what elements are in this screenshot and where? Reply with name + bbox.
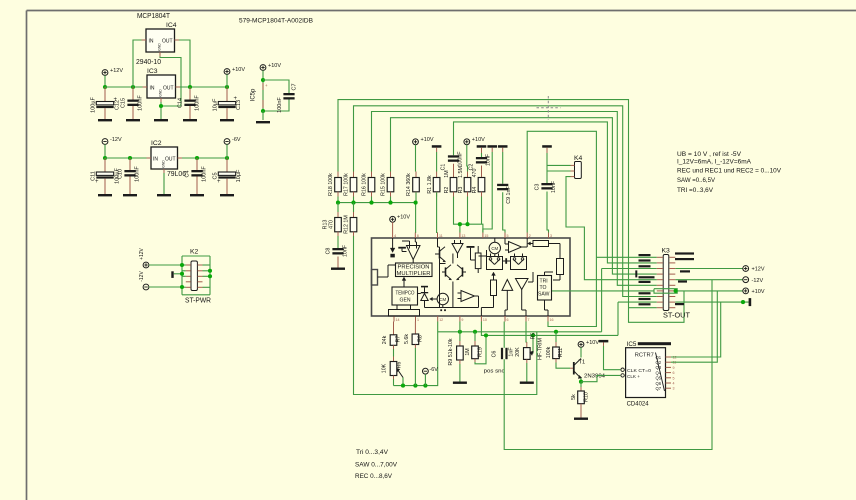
resistor R2 1M <box>453 164 455 178</box>
wire IC3 OUT rail <box>180 86 227 88</box>
svg-text:K3: K3 <box>662 248 671 255</box>
trimmer R5 20K HF-TRIM <box>525 322 528 343</box>
svg-text:C5: C5 <box>213 172 219 179</box>
regulator IC3 2940-10 <box>147 75 176 98</box>
svg-text:13: 13 <box>461 234 465 238</box>
wire net loop R16 to K3 <box>372 112 657 286</box>
svg-text:470: 470 <box>329 220 335 229</box>
K3 left vertical bar symbol <box>635 270 637 277</box>
resistor R3 1.5M <box>467 172 469 178</box>
ground C15 <box>126 119 140 121</box>
svg-text:2N3904: 2N3904 <box>584 374 606 380</box>
wire C6 bottom long loop to K3 gnd <box>504 280 712 450</box>
svg-text:R7: R7 <box>396 336 402 343</box>
svg-text:C6: C6 <box>492 351 498 358</box>
svg-text:CM: CM <box>439 297 446 302</box>
ground C12 <box>98 119 112 121</box>
supply +12V right <box>743 266 749 272</box>
op-amp A3 lower <box>461 291 475 302</box>
svg-text:11: 11 <box>439 234 443 238</box>
wire bar to R1 <box>436 148 438 152</box>
supply +10V top <box>224 69 230 75</box>
svg-text:TRI: TRI <box>540 279 548 285</box>
wire R12 long loop to bus1 <box>354 236 537 395</box>
svg-text:2: 2 <box>529 234 531 238</box>
resistor R16 100k <box>371 172 373 178</box>
wire bus2 pin10 net <box>481 322 618 336</box>
wire IC3 GND down to ground <box>160 102 162 119</box>
wire C3 net to K4 <box>546 148 548 153</box>
svg-text:R15 100k: R15 100k <box>381 173 387 196</box>
node junction C5 <box>225 156 229 160</box>
ground C8 <box>331 268 345 270</box>
svg-text:CD4024: CD4024 <box>627 401 649 408</box>
svg-text:IC5: IC5 <box>627 341 637 348</box>
TEMPCO legs <box>396 305 398 310</box>
resistor R8 5.6k <box>414 322 416 335</box>
wire Q1 to K3 <box>671 302 721 357</box>
svg-text:UB = 10 V , ref ist -5V: UB = 10 V , ref ist -5V <box>677 151 741 158</box>
internal h links <box>479 255 487 257</box>
resistor R7 24k <box>393 322 395 335</box>
node T1 emitter junction <box>579 380 583 384</box>
svg-text:+10V: +10V <box>397 215 410 221</box>
supply bar mid <box>487 145 497 148</box>
current source CM1 <box>437 293 448 304</box>
svg-text:PRECISION: PRECISION <box>398 265 430 271</box>
svg-text:+10V: +10V <box>586 340 599 346</box>
IC5 clock pin bubbles <box>621 368 624 371</box>
svg-text:1.5M: 1.5M <box>458 166 464 178</box>
svg-text:10: 10 <box>483 318 487 322</box>
capacitor C10 100nF <box>129 158 131 170</box>
svg-text:R2: R2 <box>444 187 450 194</box>
node junction C13/+10V <box>225 85 229 89</box>
node bus12 junction at C12 <box>103 85 107 89</box>
svg-text:TEMPCO: TEMPCO <box>396 290 415 296</box>
wire K4 pin3 long net to -12V row <box>566 177 657 280</box>
supply bar above C2 <box>477 145 487 148</box>
counter IC5 CD4024 body <box>626 348 666 398</box>
supply +10V above R14 <box>413 139 419 145</box>
flip-flop link bars <box>503 260 511 262</box>
svg-text:C8: C8 <box>326 248 332 255</box>
node -12V junction C11 <box>103 156 107 160</box>
wire +12V rail to IC3 IN <box>105 86 143 88</box>
wire bar3 to C9 <box>502 148 504 152</box>
supply -12V for K2 <box>143 284 149 290</box>
K2 pin stubs <box>186 264 191 266</box>
regulator IC4 MCP1804T <box>146 29 175 52</box>
ground R10 <box>574 418 588 420</box>
capacitor C7 100nF <box>283 93 294 95</box>
wire bar2 down to IC pin <box>491 148 493 152</box>
svg-text:R10: R10 <box>584 392 590 402</box>
ground C13 <box>220 119 234 121</box>
node IC5p top junction <box>261 78 265 82</box>
wire IC4 IN drop <box>133 40 142 87</box>
svg-text:+10V: +10V <box>752 289 765 295</box>
capacitor C15 100nF <box>132 87 134 100</box>
ground bar right <box>749 298 752 306</box>
svg-text:3: 3 <box>673 387 675 391</box>
K3 pin stubs <box>657 256 663 258</box>
svg-text:TRI =0..3,6V: TRI =0..3,6V <box>677 187 713 194</box>
svg-text:7: 7 <box>528 318 530 322</box>
svg-text:+12V: +12V <box>139 247 145 259</box>
svg-text:9: 9 <box>673 366 675 370</box>
svg-text:+10V: +10V <box>472 137 485 143</box>
dashed sheet marker <box>537 107 561 109</box>
ground C5 <box>220 194 234 196</box>
svg-text:6: 6 <box>673 371 675 375</box>
svg-text:6: 6 <box>507 318 509 322</box>
svg-text:+12V: +12V <box>110 68 123 74</box>
svg-text:10µF: 10µF <box>213 98 219 111</box>
svg-text:5.6k: 5.6k <box>404 334 410 344</box>
K3 left side net bars <box>639 254 651 256</box>
resistor R19 1M <box>474 332 476 341</box>
resistor R1 1.8k <box>436 172 438 178</box>
svg-text:IN: IN <box>153 157 158 163</box>
wire +10V row loop <box>654 289 677 294</box>
svg-text:1M: 1M <box>465 348 471 355</box>
supply +12V top-left <box>102 70 108 76</box>
capacitor C4 100nF <box>196 158 198 170</box>
resistor R12 1M <box>353 203 355 212</box>
svg-text:C13: C13 <box>236 100 242 110</box>
node bus224 junctions <box>458 222 462 226</box>
svg-text:4: 4 <box>673 382 675 386</box>
svg-text:K2: K2 <box>190 249 199 256</box>
wire +10V to R3 <box>466 145 469 172</box>
node junction C4 <box>195 156 199 160</box>
block TEMPCO GEN <box>392 287 418 305</box>
svg-text:GEN: GEN <box>400 297 411 303</box>
svg-text:12: 12 <box>439 318 443 322</box>
supply -12V right <box>743 277 749 283</box>
svg-text:MCP1804T: MCP1804T <box>137 11 171 20</box>
wire bus1 R12 net <box>438 331 602 333</box>
svg-text:5: 5 <box>673 376 675 380</box>
svg-text:REC und REC1 und REC2 = 0...10: REC und REC1 und REC2 = 0...10V <box>677 168 781 175</box>
svg-text:R5: R5 <box>531 333 537 340</box>
node IC3 gnd junction <box>159 104 163 108</box>
wire gnd bar to K2 <box>174 273 182 275</box>
node gnd row junction <box>741 300 745 304</box>
wire saw output from IC to loop <box>552 290 654 292</box>
ground R9 <box>453 382 467 384</box>
svg-text:24k: 24k <box>382 335 388 344</box>
ground IC5p <box>256 121 270 123</box>
supply -6V <box>224 139 230 145</box>
trimmer R6 10K <box>390 362 397 376</box>
svg-text:RCTR7: RCTR7 <box>635 353 654 359</box>
svg-text:100µF: 100µF <box>91 97 97 113</box>
connector K4 body <box>575 162 582 179</box>
svg-text:+10V: +10V <box>232 67 245 73</box>
supply -12V <box>102 139 108 145</box>
wire IC5p to C7 <box>263 80 289 93</box>
wire -12V drop <box>104 144 106 158</box>
flip-flop pair right <box>511 257 527 270</box>
svg-text:1M: 1M <box>444 170 450 177</box>
op-amp A5 buffer up <box>502 280 513 291</box>
svg-text:579-MCP1804T-A002IDB: 579-MCP1804T-A002IDB <box>239 18 313 25</box>
svg-text:CM: CM <box>491 246 498 251</box>
capacitor C8 10nF <box>337 236 339 248</box>
wire net loop R18 to ST-OUT loop <box>338 100 684 323</box>
svg-text:-12V: -12V <box>139 271 145 282</box>
node bus386 junctions <box>401 384 405 388</box>
wire R6 bottom bus <box>393 376 395 380</box>
resistor R10 5k <box>580 387 582 391</box>
svg-text:100k: 100k <box>546 346 552 358</box>
svg-text:-6V: -6V <box>232 137 241 143</box>
wire gnd row right <box>675 301 749 303</box>
wire net loop R15 to K3 <box>391 118 657 274</box>
svg-text:HF-TRIM: HF-TRIM <box>538 338 544 360</box>
svg-text:100nF: 100nF <box>135 166 141 182</box>
trimmer R6 wiper arrow <box>398 370 404 378</box>
block TRI TO SAW <box>538 276 552 301</box>
wire -12V rail to IC2 <box>105 157 147 159</box>
svg-text:C4: C4 <box>185 170 191 177</box>
connector K2 body <box>191 261 197 291</box>
flip-flop pair left <box>487 257 503 270</box>
arrow tempco to multiplier <box>403 280 405 288</box>
wire emitter to CLK <box>581 375 620 381</box>
node junction C15 <box>131 85 135 89</box>
svg-text:10nF: 10nF <box>343 244 349 257</box>
node IC5p bottom junction <box>261 109 265 113</box>
svg-text:+10V: +10V <box>421 137 434 143</box>
ground C4 <box>190 194 204 196</box>
IC top pin stubs <box>392 233 394 239</box>
svg-text:SAW: SAW <box>538 292 550 298</box>
op-amp A6 inverter down <box>516 279 529 290</box>
wire R11 to T1 base <box>555 359 557 363</box>
wire R1 bottom to IC pin 11 <box>436 192 439 232</box>
wire C9 to IC pin <box>503 192 505 232</box>
wire IC5p net <box>262 70 264 111</box>
wire +12V to bus <box>104 75 106 87</box>
capacitor C5 10uF <box>226 158 228 172</box>
supply +10V above IC pin18 <box>390 216 396 222</box>
block PRECISION MULTIPLIER <box>396 263 433 277</box>
wire reset to IC5 <box>603 342 605 346</box>
svg-text:R18 100k: R18 100k <box>328 173 334 196</box>
svg-text:5k: 5k <box>571 394 577 400</box>
supply +12V for K2 <box>143 262 149 268</box>
node +10V row junction <box>674 289 678 293</box>
K3 right side net bars <box>675 252 694 254</box>
resistor R9 51k-10k <box>459 341 461 346</box>
ground IC2 <box>157 194 171 196</box>
svg-text:R19: R19 <box>478 347 484 357</box>
internal resistor Ri1 <box>475 253 481 269</box>
node bus1 junctions <box>458 330 462 334</box>
svg-text:R3: R3 <box>458 187 464 194</box>
capacitor C3 10nF <box>541 183 552 185</box>
svg-text:100nF: 100nF <box>138 95 144 111</box>
K4 pin stubs <box>571 164 575 166</box>
svg-text:ST-OUT: ST-OUT <box>663 313 691 320</box>
svg-text:C10: C10 <box>118 169 124 179</box>
svg-text:16: 16 <box>550 318 554 322</box>
IC5 power pins stubs <box>262 83 264 90</box>
wire net loop C1 to K3 <box>454 122 657 263</box>
capacitor C9 1nF <box>497 184 508 186</box>
svg-text:-6V: -6V <box>429 367 438 373</box>
svg-text:CLK CT=0: CLK CT=0 <box>627 368 651 373</box>
wire R5 bottom to ground <box>526 359 528 363</box>
svg-text:MULTIPLIER: MULTIPLIER <box>397 271 431 277</box>
wire R19 bottom loop to bus2 <box>474 359 476 362</box>
regulator IC2 79L06 <box>151 147 178 169</box>
svg-text:K4: K4 <box>574 155 583 162</box>
IC bottom pin stubs <box>393 316 395 322</box>
svg-text:470: 470 <box>472 169 478 178</box>
node junction C10 <box>128 156 132 160</box>
internal resistor Rh with arrow <box>533 241 549 247</box>
svg-text:R12 1M: R12 1M <box>344 215 350 234</box>
capacitor C13 10uF <box>226 87 228 102</box>
op-amp A2 <box>452 244 463 254</box>
svg-text:15: 15 <box>484 234 488 238</box>
svg-text:100nF: 100nF <box>277 97 283 113</box>
resistor R14 360k <box>415 172 417 178</box>
supply -6V mid <box>423 368 429 374</box>
capacitor C11 100uF <box>104 158 106 172</box>
supply bar above C3 <box>542 145 552 148</box>
trimmer R5 wiper arrow <box>530 351 534 356</box>
K2 junction dots <box>180 263 184 267</box>
supply +10V for T1 <box>578 342 584 348</box>
wire IC5p to ground <box>262 111 264 120</box>
internal bottom rail <box>425 307 479 309</box>
supply +10V for IC5p <box>260 65 266 71</box>
supply bar above R1 <box>432 145 442 148</box>
svg-text:R9 51k-10k: R9 51k-10k <box>448 338 454 365</box>
svg-text:C14: C14 <box>178 98 184 108</box>
svg-text:OUT: OUT <box>165 157 176 163</box>
svg-text:SAW =0..6,5V: SAW =0..6,5V <box>677 177 715 184</box>
wire +12V to K2 <box>149 264 182 266</box>
supply bar CLK reset <box>599 340 609 343</box>
wire R2/R3/R4 bottom bus to IC pin 13 <box>454 197 483 233</box>
svg-text:-12V: -12V <box>752 278 764 284</box>
wire row to K3 pin 9L <box>618 301 657 303</box>
svg-text:R17 100k: R17 100k <box>344 173 350 196</box>
transistor Q2 internal <box>445 267 447 276</box>
svg-text:REC 0...8,6V: REC 0...8,6V <box>355 473 392 480</box>
node ladder bus junctions <box>336 201 340 205</box>
svg-text:GND: GND <box>162 160 166 168</box>
svg-text:Tri 0...3,4V: Tri 0...3,4V <box>356 449 388 456</box>
svg-text:R13: R13 <box>323 220 329 230</box>
wire IC2 GND <box>163 173 165 194</box>
transistor Q3 internal <box>462 267 464 276</box>
svg-text:C11: C11 <box>91 171 97 181</box>
ground C14 <box>183 119 197 121</box>
svg-text:I_12V=6mA, I_-12V=6mA: I_12V=6mA, I_-12V=6mA <box>677 159 751 166</box>
svg-text:R4: R4 <box>472 187 478 194</box>
diode internal <box>421 286 428 288</box>
svg-text:3: 3 <box>550 234 552 238</box>
IC5 output slash <box>656 353 665 392</box>
capacitor C1 100nF above R2 <box>448 155 459 157</box>
svg-text:R11: R11 <box>558 348 564 357</box>
svg-text:10K: 10K <box>382 363 388 373</box>
resistor R15 100k <box>390 172 392 178</box>
wire +10V drop <box>226 74 228 87</box>
capacitor C12 100uF <box>104 87 106 102</box>
svg-text:GND: GND <box>159 89 163 97</box>
wire +12V row to supply <box>675 268 743 270</box>
svg-text:10µF: 10µF <box>236 169 242 182</box>
supply bar above C9 <box>498 145 508 148</box>
svg-text:TO: TO <box>540 285 547 291</box>
wire +12V net vertical from bus1 <box>601 269 603 332</box>
wire pin13 drop <box>459 224 461 232</box>
wire Q2 to K3 <box>671 291 717 362</box>
svg-text:14: 14 <box>396 318 400 322</box>
connector K3 body <box>663 255 669 311</box>
svg-text:C3: C3 <box>535 184 541 191</box>
svg-text:10nF: 10nF <box>486 153 492 166</box>
capacitor C2 10nF <box>481 148 483 153</box>
IC left notch <box>372 270 378 286</box>
svg-text:IN: IN <box>150 86 155 92</box>
svg-text:Q7: Q7 <box>656 386 662 391</box>
resistor R11 100k <box>555 332 557 342</box>
IC soft-sync arrow input <box>392 238 394 249</box>
wire row to K3 pin 3L <box>602 268 657 270</box>
svg-text:IN: IN <box>149 39 154 45</box>
svg-text:+12V: +12V <box>752 267 765 273</box>
K2 green loop wiring <box>182 255 210 257</box>
svg-text:CLK +: CLK + <box>627 374 640 379</box>
capacitor C6 1nF rotated <box>503 322 505 348</box>
ground C10 <box>123 194 137 196</box>
arrow up internal <box>493 275 495 281</box>
wire +10V to T1 collector <box>580 347 582 357</box>
svg-text:ST-PWR: ST-PWR <box>185 298 211 305</box>
svg-text:R6: R6 <box>397 362 403 369</box>
svg-text:1nF: 1nF <box>509 347 515 357</box>
wire IC4 OUT to +10 rail <box>179 40 190 87</box>
ground C11 <box>98 194 112 196</box>
svg-text:5: 5 <box>507 234 509 238</box>
op-amp internal IC body <box>372 238 571 316</box>
wire row to K3 pin 1L <box>596 256 656 258</box>
svg-text:R8: R8 <box>418 335 424 342</box>
sheet frame border left line <box>26 11 28 500</box>
op-amp A4 comparator <box>509 242 522 253</box>
svg-text:100nF: 100nF <box>195 95 201 111</box>
svg-text:9: 9 <box>461 318 463 322</box>
svg-text:GND: GND <box>158 43 162 51</box>
svg-text:+10V: +10V <box>268 63 281 69</box>
wire -12V to K2 <box>149 286 182 288</box>
IC5 label bar <box>638 342 671 345</box>
transistor T1 2N3904 <box>573 362 575 375</box>
svg-text:+: + <box>265 83 268 88</box>
wire emitter to R10 <box>580 382 582 387</box>
supply +10V right <box>743 288 749 294</box>
wire R7 to R6 <box>393 345 395 349</box>
